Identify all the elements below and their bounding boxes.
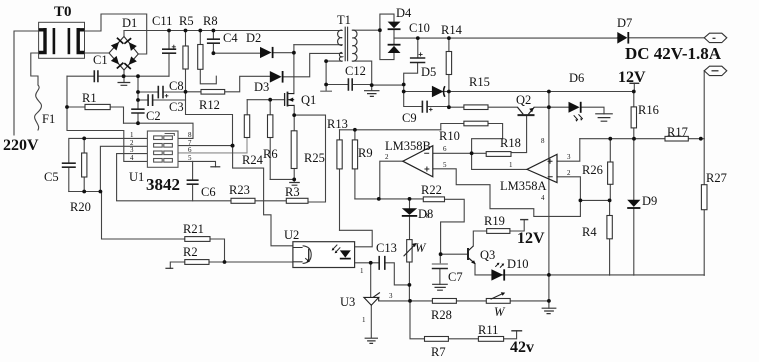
capacitor C2: [131, 109, 144, 113]
svg-text:R17: R17: [667, 125, 688, 139]
svg-text:1: 1: [362, 316, 366, 324]
wire C5 net bottom row: [69, 191, 102, 193]
svg-text:4: 4: [541, 194, 545, 202]
wire R6 R25 ground join: [270, 179, 294, 182]
wire bridge top to rail: [123, 31, 125, 37]
wire U2 LED bottom exit to C13 node: [345, 259, 370, 263]
transformer T0: [39, 22, 85, 58]
wire LM358A plus input jog: [557, 139, 580, 162]
wire U1 pin3 drop: [117, 154, 148, 201]
capacitor C5: [62, 163, 76, 167]
wire bottom rail y275: [475, 274, 704, 276]
wire LM358A minus net to R18: [433, 152, 486, 154]
svg-text:C6: C6: [201, 185, 216, 199]
svg-text:R25: R25: [304, 151, 325, 165]
svg-text:R5: R5: [179, 14, 194, 28]
svg-text:LM358B: LM358B: [385, 139, 431, 153]
wire C3 row: [138, 99, 186, 101]
wire U3 cathode: [370, 263, 372, 298]
wire U3 ref to feedback row: [379, 300, 410, 302]
optocoupler U2: [293, 242, 355, 268]
resistor R16: [631, 107, 636, 128]
wire R6 bottom lead: [269, 138, 271, 180]
wire R22 right loop to Q3 base: [441, 199, 468, 254]
wire secondary top to D4: [352, 29, 380, 31]
svg-text:6: 6: [443, 145, 447, 153]
svg-text:T0: T0: [54, 4, 72, 20]
svg-text:D9: D9: [642, 194, 657, 208]
wire T1 secondary bottom: [352, 61, 371, 90]
svg-text:C10: C10: [409, 21, 430, 35]
12V terminal tap: [629, 82, 639, 84]
wire C13 left: [371, 262, 379, 264]
svg-text:W: W: [494, 305, 506, 319]
wire D7 output: [617, 37, 704, 39]
resistor R21: [185, 237, 210, 242]
capacitor C12: [348, 78, 352, 91]
wire row y129.8 R13 R9 tops: [340, 129, 441, 131]
wire D3 cathode to winding B top: [283, 53, 343, 76]
diode D5: [432, 86, 445, 98]
svg-text:C5: C5: [44, 170, 59, 184]
wire winding B bottom to C12: [326, 61, 342, 84]
svg-text:R9: R9: [358, 146, 373, 160]
svg-text:R18: R18: [500, 136, 521, 150]
svg-text:D10: D10: [507, 257, 529, 271]
wire D5 anode: [404, 91, 432, 93]
svg-text:R3: R3: [285, 185, 300, 199]
IC U1 3842: [147, 131, 178, 167]
wire R17 right to rail: [688, 138, 704, 140]
capacitor C8 electrolytic: [158, 86, 168, 99]
resistor R8: [198, 45, 203, 70]
svg-text:R21: R21: [183, 222, 204, 236]
wire C5 bottom: [68, 167, 70, 191]
wire D8 stem: [409, 199, 411, 240]
resistor R18: [486, 152, 511, 157]
transistor Q3: [468, 246, 476, 264]
wire C4 stem: [212, 31, 214, 54]
svg-text:3: 3: [389, 292, 393, 300]
svg-text:R10: R10: [439, 129, 460, 143]
svg-text:3: 3: [130, 146, 134, 154]
svg-text:3: 3: [567, 153, 571, 161]
resistor R14: [446, 52, 451, 75]
resistor R11: [478, 337, 503, 342]
svg-text:4: 4: [130, 154, 134, 162]
svg-text:12V: 12V: [618, 69, 646, 86]
svg-text:R28: R28: [431, 308, 452, 322]
svg-text:R7: R7: [431, 345, 446, 359]
resistor R5: [183, 46, 188, 69]
capacitor C10 electrolytic: [410, 52, 425, 62]
capacitor C1: [94, 70, 98, 82]
wire bridge left: [85, 52, 110, 54]
wire R24 top: [246, 100, 248, 115]
wire Q3 emitter drop: [474, 264, 476, 275]
wire supply rail x549: [548, 92, 550, 301]
wire C9 row: [404, 92, 449, 107]
diode D2: [260, 47, 273, 58]
svg-text:R13: R13: [327, 117, 348, 131]
wire R13 leads: [339, 130, 341, 231]
wire T1 primary A bottom: [294, 44, 342, 46]
svg-text:C1: C1: [93, 53, 108, 67]
wire R19 right to 12V tap: [510, 220, 524, 231]
svg-text:R22: R22: [421, 183, 442, 197]
svg-text:R8: R8: [203, 14, 218, 28]
svg-text:R12: R12: [199, 98, 220, 112]
wire D9 chain: [633, 139, 635, 276]
wire C11 stem: [168, 31, 170, 77]
svg-text:2: 2: [567, 169, 571, 177]
resistor R20: [82, 153, 87, 177]
wire U1 pin4 route: [67, 76, 147, 161]
wire Q2 emitter to R18: [511, 115, 527, 153]
svg-text:1: 1: [509, 161, 513, 169]
capacitor C6: [187, 180, 199, 184]
wire T0 right-top jog to bridge right: [85, 14, 147, 54]
wire R14 leads: [448, 38, 450, 107]
svg-text:DC 42V-1.8A: DC 42V-1.8A: [625, 44, 722, 63]
capacitor C9 electrolytic: [422, 101, 432, 113]
wire C2 net row y123.2: [124, 123, 194, 138]
wire U1 pin5 stub and mini ground: [178, 161, 216, 166]
capacitor C3: [148, 94, 153, 106]
wire C8 row: [138, 91, 186, 93]
wire C10 stem and jog: [404, 38, 418, 84]
svg-text:1: 1: [130, 131, 134, 139]
svg-text:R16: R16: [638, 103, 659, 117]
wire C1 row y76: [67, 75, 169, 77]
wire U1 pin1 row: [69, 138, 148, 163]
wire R28 W row y300.9: [410, 301, 549, 308]
wire bridge bottom to ground: [123, 70, 125, 83]
svg-text:220V: 220V: [3, 137, 39, 154]
wire T0 left-bottom jog to fuse: [31, 53, 39, 85]
potentiometer W lower: [486, 292, 510, 303]
ground below R6 R25: [289, 183, 300, 186]
svg-text:D7: D7: [617, 16, 632, 30]
terminal minus: [704, 66, 727, 75]
wire feedback row y138.7: [580, 138, 665, 140]
opamp LM358B: [403, 146, 433, 177]
wire DC rail y38: [394, 37, 617, 39]
wire feedback node row y200.4: [580, 199, 609, 201]
wire R20 leads: [83, 138, 85, 191]
resistor R9: [352, 140, 357, 169]
transistor Q1 mosfet: [285, 92, 295, 107]
wire R23 R3 joining: [255, 200, 286, 202]
resistor R4: [607, 216, 612, 239]
resistor R13: [337, 140, 342, 169]
wire D2 anode row: [213, 52, 260, 54]
svg-text:W: W: [415, 241, 427, 255]
wire C12 row: [326, 84, 372, 86]
svg-text:F1: F1: [42, 112, 55, 126]
12V tap at R19: [520, 219, 528, 221]
resistor R3: [286, 198, 308, 203]
svg-text:C11: C11: [152, 14, 172, 28]
svg-text:R1: R1: [82, 91, 97, 105]
svg-text:C4: C4: [223, 31, 238, 45]
wire R25 leads: [293, 115, 295, 179]
wire U1 bottom rail: [117, 200, 231, 202]
wire R24 bottom gray lead: [246, 138, 248, 153]
bridge rectifier D1: [109, 37, 138, 71]
resistor R12: [201, 90, 225, 95]
wire LM358B output drop: [380, 161, 403, 199]
svg-text:8: 8: [188, 131, 192, 139]
diode D9 zener: [627, 200, 640, 208]
svg-text:C9: C9: [402, 111, 417, 125]
wire R13 route to U2 LED: [340, 230, 373, 247]
wire mains left line: [14, 31, 39, 135]
capacitor C7: [432, 264, 448, 269]
wire Q1 gate rail: [247, 99, 284, 101]
svg-text:R11: R11: [478, 323, 498, 337]
wire D3 anode from R12 net: [225, 76, 270, 92]
transformer T1: [338, 27, 357, 62]
wire LM358A minus input jog: [557, 177, 580, 201]
diode D6 led: [569, 102, 583, 122]
wire U3 anode to ground: [370, 305, 372, 338]
wire R4 leads: [609, 200, 611, 275]
potentiometer W upper: [404, 240, 417, 262]
ground secondary: [364, 91, 380, 97]
ground C7: [432, 284, 448, 290]
svg-text:2: 2: [385, 153, 389, 161]
wire route to R21: [102, 192, 185, 240]
terminal plus: [704, 33, 727, 42]
svg-text:R20: R20: [70, 200, 91, 214]
svg-text:U2: U2: [284, 228, 299, 242]
wire Q1 drain vertical: [293, 45, 295, 94]
svg-text:Q3: Q3: [480, 248, 495, 262]
wire Q1 source to R3 right rail: [294, 115, 325, 202]
resistor R6: [268, 115, 273, 138]
wire U1 pin6 gray: [178, 152, 247, 154]
wire C7 stems: [439, 254, 441, 284]
svg-text:C2: C2: [146, 109, 161, 123]
svg-text:12V: 12V: [517, 230, 545, 247]
svg-text:R19: R19: [484, 214, 505, 228]
svg-text:C13: C13: [376, 241, 397, 255]
svg-text:R4: R4: [582, 225, 597, 239]
ground U3: [365, 338, 378, 343]
resistor R15: [464, 105, 488, 110]
svg-text:D6: D6: [569, 71, 584, 85]
wire C12 ground stub: [325, 85, 327, 91]
wire C12 net to C9 node: [372, 85, 404, 92]
svg-text:R14: R14: [441, 23, 463, 37]
svg-text:R2: R2: [183, 245, 198, 259]
wire R9 leads: [354, 130, 356, 199]
transistor Q2: [518, 107, 535, 115]
resistor R25: [291, 131, 297, 169]
resistor R22: [423, 197, 444, 202]
svg-text:D4: D4: [396, 6, 412, 20]
svg-text:6: 6: [188, 146, 192, 154]
svg-text:U3: U3: [340, 295, 355, 309]
diode D3: [270, 71, 283, 83]
resistor R1: [85, 104, 110, 109]
wire drop to R7 R11 row: [410, 301, 517, 339]
svg-text:1: 1: [360, 267, 364, 275]
resistor R10: [464, 121, 488, 126]
svg-text:U1: U1: [129, 170, 144, 184]
wire U1 pin7 route to U2: [178, 146, 293, 246]
wire Q1 source: [293, 105, 295, 115]
wire 12V tap: [633, 83, 635, 91]
resistor R19: [487, 229, 510, 234]
wire row y198.9 to R22: [355, 198, 423, 200]
wire R19 left to Q3 collector: [473, 231, 486, 246]
svg-text:C12: C12: [345, 64, 366, 78]
resistor R17: [665, 136, 688, 141]
svg-text:C8: C8: [169, 79, 184, 93]
svg-text:R27: R27: [706, 171, 727, 185]
ground D6: [595, 114, 613, 121]
svg-text:D3: D3: [254, 80, 269, 94]
wire 12V net y91.5: [449, 91, 634, 93]
wire R26 leads: [609, 139, 611, 201]
wire U2 LED top inside: [344, 247, 346, 251]
svg-text:D2: D2: [246, 31, 261, 45]
wire R16 leads: [633, 92, 635, 139]
diode D8: [402, 208, 417, 216]
shunt regulator U3: [364, 293, 380, 306]
wire C13 right jog to W drop: [385, 263, 407, 285]
diode D10 led: [491, 263, 504, 281]
svg-text:Q2: Q2: [516, 93, 531, 107]
capacitor C4: [207, 39, 220, 43]
capacitor C11 electrolytic: [162, 45, 176, 53]
wire R6 top lead: [269, 100, 271, 115]
opamp LM358A: [527, 154, 557, 182]
resistor R23: [231, 198, 255, 203]
wire U1 pin2 drop: [100, 146, 147, 191]
svg-text:Q1: Q1: [301, 93, 316, 107]
svg-text:C3: C3: [169, 100, 184, 114]
wire R5 leads: [185, 31, 187, 92]
wire R12 left lead: [186, 91, 202, 93]
svg-text:R6: R6: [263, 147, 278, 161]
wire R21 leads: [210, 239, 225, 262]
dual diode D4: [388, 22, 401, 53]
42v terminal tap: [511, 330, 522, 332]
svg-text:D1: D1: [122, 16, 137, 30]
svg-text:3842: 3842: [146, 175, 180, 194]
ground below bridge: [118, 83, 131, 86]
svg-text:5: 5: [188, 154, 192, 162]
svg-text:C7: C7: [448, 270, 463, 284]
fuse F1: [35, 85, 42, 130]
capacitor C13: [379, 256, 385, 270]
wire LM358B plus route to feedback node: [433, 169, 581, 217]
wire R10 left jog: [441, 124, 464, 130]
wire LM358A output: [472, 153, 527, 169]
wire C2 stem x138: [137, 76, 139, 123]
wire right rail: [703, 71, 705, 275]
ground stub C12: [320, 90, 332, 92]
resistor R2: [185, 260, 209, 265]
mini ground at U1 pin5: [210, 166, 220, 168]
wire top rail 30.5: [124, 30, 342, 32]
wire Q2 collector to rail: [534, 106, 549, 108]
diode D7: [617, 32, 628, 44]
svg-text:R15: R15: [469, 75, 490, 89]
svg-text:D5: D5: [421, 65, 436, 79]
wire R8 leads and stub: [200, 31, 216, 84]
wire R2 left ground stub: [170, 262, 185, 268]
svg-text:T1: T1: [337, 13, 351, 27]
resistor R27: [701, 185, 707, 210]
wire R2 right to U2: [209, 261, 293, 263]
svg-text:42v: 42v: [510, 339, 534, 356]
wire R1 leads: [67, 107, 124, 123]
svg-text:8: 8: [426, 212, 430, 220]
wire R5 net down to pin7 junction: [186, 92, 233, 146]
resistor R7: [425, 337, 449, 342]
svg-text:5: 5: [443, 161, 447, 169]
wire R10 right jog: [472, 124, 503, 154]
wire D4 loop: [380, 14, 394, 60]
resistor R28: [432, 299, 456, 304]
ground stub R2: [165, 267, 173, 269]
resistor R24: [244, 115, 249, 138]
svg-text:R23: R23: [229, 183, 250, 197]
wire R15 leads: [449, 106, 518, 108]
svg-text:R24: R24: [242, 153, 264, 167]
wire W pot drop: [408, 262, 410, 301]
svg-text:R26: R26: [582, 163, 603, 177]
ground feedback row: [542, 308, 557, 313]
resistor R26: [608, 162, 613, 184]
wire D2 cathode to Q1 drain node: [273, 52, 294, 54]
wire D5 cathode to R14: [444, 91, 449, 93]
svg-text:LM358A: LM358A: [500, 179, 547, 193]
wire C6 drop: [192, 161, 194, 200]
wire D6 row: [549, 107, 604, 114]
svg-text:8: 8: [541, 137, 545, 145]
